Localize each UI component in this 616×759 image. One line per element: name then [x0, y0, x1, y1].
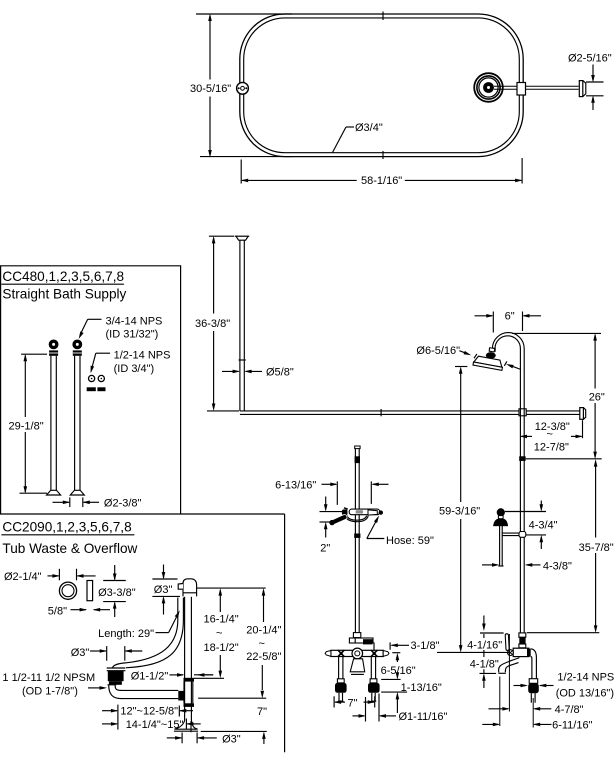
- cradle loop: [345, 515, 368, 522]
- dimension diameter 1-1/2: [131, 670, 213, 682]
- svg-text:5/8": 5/8": [48, 605, 67, 617]
- dimension 58-1/16: [241, 158, 523, 187]
- svg-text:Ø1-1/2": Ø1-1/2": [131, 670, 169, 682]
- svg-text:Length: 29": Length: 29": [98, 628, 154, 640]
- svg-text:29-1/8": 29-1/8": [9, 421, 44, 433]
- overflow plate: [87, 581, 93, 601]
- svg-text:4-1/16": 4-1/16": [467, 640, 502, 652]
- ext line 7in bottom: [201, 730, 267, 732]
- ext line at riser joint: [526, 458, 602, 460]
- svg-text:(ID 3/4"): (ID 3/4"): [114, 363, 155, 375]
- svg-text:Ø1-11/16": Ø1-11/16": [399, 711, 448, 723]
- SECTION: CC2090 box: [1, 514, 284, 752]
- left connector fitting: [237, 82, 249, 94]
- svg-text:Hose: 59": Hose: 59": [386, 535, 434, 547]
- label 1 1/2-11 1/2 NPSM: [2, 672, 107, 697]
- dimension 6: [475, 310, 542, 332]
- svg-text:(ID 31/32"): (ID 31/32"): [106, 329, 159, 341]
- svg-text:Ø2-3/8": Ø2-3/8": [104, 498, 142, 510]
- svg-text:Ø5/8": Ø5/8": [266, 367, 294, 379]
- tub rim line: [197, 587, 266, 589]
- dimension diameter 3-3/8: [98, 565, 136, 617]
- dimension diameter 2-1/4: [4, 569, 96, 583]
- cradle bar: [342, 508, 383, 515]
- dimension 4-3/8: [482, 560, 572, 572]
- dimension 36-3/8: [195, 236, 239, 411]
- dimension diameter 3 top: [152, 565, 180, 615]
- svg-text:(OD 13/16"): (OD 13/16"): [556, 687, 614, 699]
- spout elbow right: [528, 649, 539, 703]
- dimension 30-5/16: [190, 14, 292, 158]
- dimension 7: [257, 706, 267, 744]
- riser union upper: [519, 633, 526, 648]
- svg-text:1 1/2-11 1/2 NPSM: 1 1/2-11 1/2 NPSM: [2, 672, 95, 684]
- tub rim line right: [437, 651, 510, 653]
- svg-text:20-1/4": 20-1/4": [246, 624, 281, 636]
- dimension 26: [589, 333, 605, 459]
- ext line 7in top: [198, 697, 266, 699]
- overflow standpipe: [185, 597, 192, 724]
- svg-text:1-13/16": 1-13/16": [401, 682, 442, 694]
- svg-text:CC2090,1,2,3,5,6,7,8: CC2090,1,2,3,5,6,7,8: [2, 519, 131, 534]
- ext line 26 top: [512, 332, 601, 334]
- spout valve body: [513, 648, 531, 656]
- svg-text:7": 7": [348, 697, 358, 709]
- dimension 16-1/4 ~ 18-1/2: [194, 588, 239, 678]
- svg-text:14-1/4"~15": 14-1/4"~15": [126, 719, 184, 731]
- svg-text:59-3/16": 59-3/16": [439, 506, 480, 518]
- rod joint tick bottom: [382, 151, 384, 159]
- dimension 29-1/8: [9, 354, 48, 494]
- svg-text:Ø3/4": Ø3/4": [355, 122, 383, 134]
- rod joint tick top: [382, 12, 384, 21]
- svg-text:~: ~: [216, 628, 222, 640]
- svg-text:30-5/16": 30-5/16": [190, 83, 231, 95]
- rod collar at frame: [517, 83, 526, 96]
- svg-text:16-1/4": 16-1/4": [204, 613, 239, 625]
- dimension diameter 2-5/16: [568, 53, 612, 111]
- svg-text:~: ~: [259, 638, 265, 650]
- ext line spout tip: [508, 634, 510, 712]
- dimension 6-5/16: [381, 653, 416, 680]
- lever pivot: [508, 650, 514, 656]
- svg-text:58-1/16": 58-1/16": [361, 175, 402, 187]
- dimension 2: [320, 497, 343, 555]
- hand shower pipe: [354, 446, 360, 633]
- dimension 4-1/8: [470, 659, 499, 688]
- left supply pipe: [47, 356, 61, 495]
- faucet body: [325, 648, 389, 659]
- svg-text:1/2-14 NPS: 1/2-14 NPS: [114, 349, 171, 361]
- standpipe foot flange: [174, 721, 198, 733]
- faucet diverter collar: [353, 633, 360, 638]
- svg-text:4-3/4": 4-3/4": [529, 519, 558, 531]
- drain locknut: [109, 681, 122, 685]
- faucet right leg: [368, 657, 380, 702]
- dimension 4-3/4: [505, 501, 558, 550]
- dimension diameter 1-11/16: [353, 694, 448, 723]
- ceiling flange plan: [474, 73, 503, 102]
- dimension 20-1/4 ~ 22-5/8: [246, 588, 281, 698]
- faucet left leg: [335, 657, 347, 702]
- shower head ball joint: [486, 352, 496, 359]
- waste tee flange: [178, 691, 183, 701]
- diverter valve side view: [493, 508, 526, 566]
- label 1/2-14 NPS: [556, 672, 615, 700]
- svg-text:Ø3-3/8": Ø3-3/8": [98, 587, 136, 599]
- svg-text:36-3/8": 36-3/8": [195, 318, 230, 330]
- svg-text:4-1/8": 4-1/8": [470, 659, 499, 671]
- curtain frame outer tube: [240, 14, 523, 157]
- svg-text:Ø2-5/16": Ø2-5/16": [568, 53, 612, 65]
- dimension 35-7/8: [579, 459, 614, 633]
- svg-text:Ø2-1/4": Ø2-1/4": [4, 571, 42, 583]
- shelf line under CC480 box: [0, 513, 285, 515]
- label 3/4-14 NPS: [77, 315, 162, 340]
- svg-text:2": 2": [320, 542, 330, 554]
- faucet cross handle right: [371, 650, 378, 657]
- ceiling drop rod: [239, 240, 246, 411]
- svg-text:18-1/2": 18-1/2": [204, 642, 239, 654]
- dimension 12-3/8 ~ 12-7/8: [520, 420, 584, 453]
- svg-text:1/2-14 NPS: 1/2-14 NPS: [557, 672, 614, 684]
- tub spout: [498, 658, 519, 674]
- dimension shoe OD arrows: [514, 684, 554, 688]
- standpipe lower tube: [184, 682, 193, 704]
- dimension 3-1/8: [374, 640, 440, 652]
- SECTION: elevation view: [195, 236, 614, 732]
- hand shower handle: [329, 514, 347, 526]
- svg-text:22-5/8": 22-5/8": [246, 651, 281, 663]
- svg-text:Ø3": Ø3": [71, 647, 90, 659]
- CC2090 title: [1, 519, 137, 556]
- hose outer curve: [113, 598, 178, 668]
- right pipe ball nut: [72, 340, 82, 356]
- CC480 box border: [1, 266, 181, 514]
- curtain rod horizontal: [240, 409, 580, 416]
- dimension diameter 5/8: [222, 367, 294, 379]
- ceiling plate: [235, 236, 250, 240]
- washer ring: [59, 582, 76, 599]
- 1/2 adapter dashes: [87, 387, 106, 391]
- ext line spout outlet: [499, 677, 501, 727]
- shower riser pipe: [520, 349, 524, 634]
- svg-text:7": 7": [257, 706, 267, 718]
- dimension 6-11/16: [482, 719, 592, 731]
- dimension diameter 3 drain: [71, 646, 143, 661]
- svg-text:Ø3": Ø3": [222, 733, 241, 745]
- dimension diameter 2-3/8: [53, 497, 142, 509]
- dimension 7 faucet: [334, 696, 376, 709]
- svg-text:Straight Bath Supply: Straight Bath Supply: [2, 286, 126, 301]
- curtain frame inner tube line: [244, 18, 520, 153]
- riser joint collar: [519, 456, 525, 461]
- tee lower collar: [184, 703, 195, 707]
- wall bracket plan: [579, 81, 586, 97]
- svg-text:6-13/16": 6-13/16": [275, 479, 316, 491]
- valve lever: [505, 634, 509, 651]
- drain elbow: [108, 685, 123, 699]
- label 1/2-14 NPS: [89, 349, 171, 374]
- support rod plan: [494, 86, 579, 89]
- ext line 4-1/16 top: [480, 632, 599, 634]
- svg-text:12"~12-5/8": 12"~12-5/8": [120, 706, 178, 718]
- dimension 5/8: [48, 605, 110, 617]
- SECTION: CC480 box: [0, 266, 285, 514]
- svg-text:Ø6-5/16": Ø6-5/16": [416, 345, 460, 357]
- faucet diverter arm: [349, 638, 373, 644]
- SECTION: top plan view: [190, 12, 612, 188]
- svg-text:3-1/8": 3-1/8": [411, 640, 440, 652]
- dimension diameter 6-5/16: [416, 345, 521, 370]
- wall bracket elevation: [580, 408, 586, 420]
- ext line riser bottom: [532, 698, 534, 728]
- drain body dark: [108, 671, 124, 681]
- svg-text:6": 6": [505, 310, 515, 322]
- left pipe ball nut: [49, 340, 59, 356]
- svg-text:6-11/16": 6-11/16": [552, 719, 592, 731]
- 1/2 adapter rings: [89, 375, 105, 381]
- svg-text:~: ~: [547, 429, 553, 441]
- dimension 14-1/4 ~ 15: [102, 719, 201, 731]
- waste pipe horizontal: [120, 690, 178, 698]
- label Hose: 59: [367, 515, 434, 547]
- dimension 59-3/16: [439, 366, 480, 652]
- svg-text:35-7/8": 35-7/8": [579, 542, 614, 554]
- rod collar at riser: [519, 409, 526, 416]
- dimension 6-13/16: [275, 479, 388, 505]
- standpipe slip nut: [184, 678, 195, 682]
- dimension 1-13/16: [381, 679, 442, 713]
- gooseneck arch: [492, 333, 524, 349]
- dimension 4-1/16: [467, 616, 502, 658]
- CC480 title: [1, 269, 126, 301]
- svg-text:12-7/8": 12-7/8": [534, 441, 569, 453]
- shower head bell: [473, 345, 506, 370]
- overflow elbow head: [178, 579, 196, 597]
- svg-text:(OD 1-7/8"): (OD 1-7/8"): [22, 685, 78, 697]
- dimension 4-7/8: [489, 704, 584, 716]
- drain spud cap: [107, 668, 126, 671]
- svg-text:4-3/8": 4-3/8": [543, 560, 572, 572]
- svg-text:Ø3": Ø3": [154, 584, 173, 596]
- hose inner curve: [126, 598, 183, 668]
- svg-text:4-7/8": 4-7/8": [555, 704, 584, 716]
- dimension 12 ~ 12-5/8: [102, 705, 193, 730]
- svg-text:CC480,1,2,3,5,6,7,8: CC480,1,2,3,5,6,7,8: [2, 269, 124, 284]
- svg-text:Tub Waste & Overflow: Tub Waste & Overflow: [2, 541, 137, 556]
- faucet spout: [350, 659, 365, 675]
- CC2090 box right border: [284, 514, 286, 752]
- right supply pipe: [70, 356, 84, 495]
- svg-text:26": 26": [589, 391, 605, 403]
- dimension label diameter 3/4: [333, 122, 383, 153]
- svg-text:3/4-14 NPS: 3/4-14 NPS: [106, 315, 163, 327]
- faucet cross handle left: [338, 650, 345, 657]
- dimension diameter 3 foot: [167, 733, 241, 746]
- label Length: 29: [98, 610, 181, 641]
- gooseneck nipple: [489, 348, 495, 351]
